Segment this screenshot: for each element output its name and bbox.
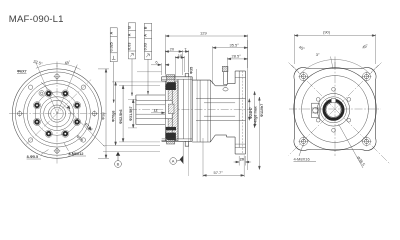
angular dim arc 22.5 / 45 (36, 62, 81, 73)
diameter leader 100 / 50 (41, 82, 105, 147)
svg-text:0.03: 0.03 (128, 43, 132, 50)
bolt bottom section (166, 136, 174, 144)
dim 35.5 (213, 46, 248, 84)
45 deg dim right (335, 59, 379, 73)
svg-text:MAF-090-L1: MAF-090-L1 (9, 14, 64, 25)
svg-text:Φ62.5h6: Φ62.5h6 (119, 109, 123, 124)
diagonal 45 deg construction line (26, 80, 91, 145)
8 bolt holes 8-5.5 on r37.3 (16, 73, 97, 154)
svg-text:Φ40g6 max: Φ40g6 max (254, 105, 258, 126)
45 deg dim left (292, 59, 336, 73)
svg-text:57.7°: 57.7° (214, 170, 224, 175)
3 deg dim (331, 57, 336, 69)
square flange outline with chamfered corners and ear arcs (294, 67, 376, 150)
dim dia70g6 (datum B) (103, 82, 166, 145)
dim 6 (151, 63, 170, 75)
svg-text:0.03: 0.03 (144, 43, 148, 50)
label dia36.5 (339, 124, 367, 168)
datum B balloon (115, 152, 122, 168)
dim 129 (166, 35, 248, 75)
output flange hatched section (165, 81, 178, 141)
dim 7 (182, 50, 188, 72)
8 filled screw holes 8-M6X12 on r21.7 (34, 91, 80, 137)
radial line 67.5 deg (57, 67, 77, 114)
svg-text:12: 12 (154, 109, 158, 113)
label 8-5.5 bottom-left (27, 150, 49, 160)
svg-text:Φ110h7: Φ110h7 (260, 104, 264, 117)
hub circles (317, 94, 350, 127)
middle centerline (129, 109, 252, 111)
gdt frame 3 runout 0.03 A B (144, 23, 151, 94)
svg-text:8-Φ5.5: 8-Φ5.5 (27, 155, 38, 159)
hidden line in flange (241, 71, 243, 154)
svg-text:Φ6X7: Φ6X7 (17, 69, 27, 73)
label 6X7 top-left (17, 69, 27, 73)
output shaft (136, 95, 165, 125)
ridge (185, 74, 189, 77)
housing block (162, 74, 193, 147)
svg-text:20: 20 (240, 158, 244, 162)
phi92 extension line (137, 71, 162, 73)
input flange plate (235, 70, 245, 72)
input screws 6x (316, 87, 350, 132)
svg-text:Φ24H7: Φ24H7 (249, 107, 253, 119)
svg-text:B: B (128, 26, 132, 29)
seal bottom (166, 133, 176, 141)
taper (210, 80, 215, 86)
svg-text:A: A (109, 32, 113, 35)
dim dia62.5h6 (119, 85, 160, 142)
keyway (331, 99, 335, 103)
clamp lug (312, 103, 320, 117)
label 8-M6X12 bottom-right (64, 143, 86, 156)
label 4-M8X16 (294, 146, 317, 162)
clamp hole ellipse (223, 88, 228, 91)
svg-text:20: 20 (170, 46, 175, 51)
right stacked dims (248, 40, 261, 170)
key hatch block (168, 104, 174, 114)
svg-text:B: B (117, 162, 120, 167)
input bore lines (196, 99, 246, 121)
clamp screw (222, 66, 228, 84)
svg-text:0.025: 0.025 (109, 42, 113, 51)
dowel pin hole (39, 91, 44, 96)
dim dia31.5h7 (128, 99, 137, 128)
retaining ring dark band (166, 127, 176, 130)
cylinder (215, 85, 226, 87)
svg-text:Φ98: Φ98 (101, 112, 106, 120)
dim 28.5 (227, 57, 247, 82)
svg-text:4-M8X16: 4-M8X16 (294, 157, 311, 162)
dim 20 bottom right (234, 156, 252, 166)
svg-text:28.5°: 28.5° (232, 53, 242, 58)
section locator line (188, 52, 190, 176)
svg-text:Φ70g6: Φ70g6 (111, 111, 115, 122)
left view centerlines (9, 62, 107, 164)
gdt frame 2 runout 0.03 A B (128, 23, 135, 96)
svg-text:10: 10 (178, 53, 183, 58)
svg-text:129: 129 (200, 31, 207, 36)
dim square 90 (295, 34, 376, 64)
dowel axis line 112.5 deg (36, 62, 57, 114)
svg-text:(90): (90) (323, 30, 331, 35)
svg-text:Φ35: Φ35 (190, 67, 194, 74)
datum A balloon (170, 142, 183, 164)
body circle (294, 68, 377, 151)
internal verticals (177, 79, 179, 139)
bolt top section (166, 75, 174, 83)
dim 10 (175, 56, 184, 79)
corner holes (299, 72, 372, 147)
dim 57.7 bottom (203, 138, 244, 177)
svg-text:35.5°: 35.5° (230, 42, 240, 47)
gdt frame 1 perpendicularity 0.025 A (110, 28, 117, 103)
extension line y151.7 (103, 151, 160, 153)
svg-text:A: A (144, 34, 148, 37)
svg-text:Φ31.5h7: Φ31.5h7 (129, 106, 133, 121)
dim 20 (165, 50, 182, 76)
svg-text:3°: 3° (316, 52, 320, 57)
svg-text:A: A (172, 159, 175, 164)
seal top (166, 82, 176, 90)
collar (227, 83, 236, 85)
right view centerlines (289, 62, 390, 164)
svg-text:A: A (128, 33, 132, 36)
step section (192, 71, 245, 154)
left view body circles (12, 69, 101, 158)
svg-text:B: B (144, 26, 148, 29)
svg-text:8-M6X12: 8-M6X12 (69, 152, 84, 156)
dim dia98 (98, 69, 109, 158)
